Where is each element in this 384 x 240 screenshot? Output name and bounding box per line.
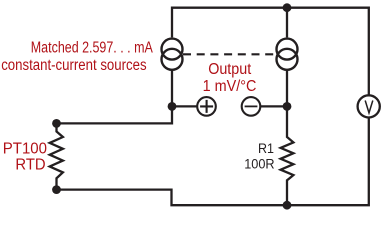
svg-text:1 mV/°C: 1 mV/°C [203, 78, 257, 95]
svg-text:RTD: RTD [15, 157, 45, 174]
svg-text:PT100: PT100 [3, 141, 48, 158]
svg-text:R1: R1 [258, 141, 274, 156]
svg-text:100R: 100R [244, 157, 275, 172]
svg-text:constant-current sources: constant-current sources [1, 57, 147, 74]
svg-text:Output: Output [208, 61, 252, 78]
svg-text:Matched 2.597. . . mA: Matched 2.597. . . mA [31, 39, 154, 56]
